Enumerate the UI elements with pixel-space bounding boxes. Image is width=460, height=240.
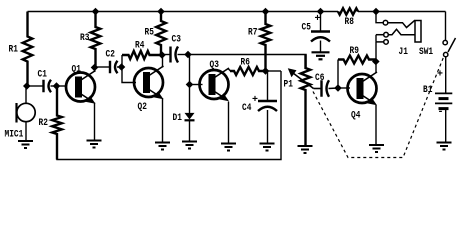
svg-text:Q2: Q2 <box>138 101 147 113</box>
transistor Q3 <box>200 68 230 101</box>
svg-text:-: - <box>438 106 444 118</box>
ground for C5 <box>312 52 330 59</box>
label R8 <box>345 16 354 28</box>
wire Q4 base <box>338 87 350 89</box>
label R9 <box>350 45 359 57</box>
wire Q2 collector <box>162 55 164 68</box>
svg-text:R4: R4 <box>135 40 144 52</box>
resistor R4 <box>122 51 162 67</box>
wire Q3 base drop <box>189 55 191 85</box>
svg-text:R3: R3 <box>80 32 89 44</box>
label R5 <box>145 27 154 39</box>
svg-text:R9: R9 <box>350 45 359 57</box>
node junction dot R4/R5/C3/Q2 <box>158 51 166 59</box>
svg-text:C3: C3 <box>172 34 181 46</box>
wire SW1 to battery <box>445 57 447 93</box>
wire node to feedback drop <box>266 70 282 72</box>
potentiometer P1 body <box>301 55 311 147</box>
node junction dot C2/R4/Q2 base <box>118 63 126 71</box>
resistor R6 <box>230 67 266 75</box>
jack J1 plug body <box>415 21 421 43</box>
ground for Q2 emitter <box>155 143 170 150</box>
node junction dot R9/Q4/J1 <box>372 58 380 66</box>
plus sign B1 <box>437 69 443 81</box>
plus sign C5 <box>315 13 321 25</box>
potentiometer P1 wiper arrow <box>288 68 321 88</box>
label R6 <box>241 57 250 69</box>
wire J1 sleeve to Q4 collector <box>375 35 377 62</box>
svg-text:SW1: SW1 <box>419 46 433 58</box>
svg-text:C5: C5 <box>302 22 311 34</box>
wire Q3 emitter <box>228 102 230 144</box>
wire rail to J1 tip contact <box>376 12 383 23</box>
junction dot rail/R3 <box>92 8 100 16</box>
label R2 <box>39 117 48 129</box>
resistor R5 <box>156 12 166 56</box>
transistor Q1 <box>66 71 96 104</box>
ground for Q3 emitter <box>221 144 236 151</box>
label D1 <box>173 112 182 124</box>
transistor Q4 <box>348 72 378 105</box>
node junction dot R6/R7/C4 <box>262 67 270 75</box>
switch SW1 <box>443 38 456 57</box>
plus sign C4 <box>252 94 258 106</box>
ground for MIC1 <box>18 141 33 148</box>
minus sign B1 <box>438 106 444 118</box>
resistor R3 <box>91 12 101 68</box>
label Q4 <box>351 110 360 122</box>
label C3 <box>172 34 181 46</box>
resistor R2 <box>52 86 62 160</box>
wire Q1 collector <box>94 68 96 73</box>
battery B1 <box>435 93 452 108</box>
dashed mechanical link P1 to SW1 <box>313 56 444 158</box>
ground for B1 <box>437 143 452 150</box>
capacitor C5 electrolytic <box>311 12 330 53</box>
label R3 <box>80 32 89 44</box>
junction dot rail/R5 <box>157 8 165 16</box>
label Q1 <box>72 64 81 76</box>
label P1 <box>284 79 293 91</box>
capacitor C1 <box>28 80 57 93</box>
label Q3 <box>210 59 219 71</box>
label Q2 <box>138 101 147 113</box>
svg-text:R5: R5 <box>145 27 154 39</box>
svg-text:Q3: Q3 <box>210 59 219 71</box>
ground for D1 <box>182 142 197 149</box>
node A junction dot (R1/C1/MIC1) <box>23 82 31 90</box>
junction dot rail/J1 <box>372 8 380 16</box>
wire Q1 base <box>57 85 67 87</box>
node junction dot D1/Q3 base <box>186 81 194 89</box>
svg-text:Q4: Q4 <box>351 110 360 122</box>
wire Q4 collector <box>375 62 377 74</box>
resistor R7 <box>261 12 271 72</box>
svg-text:P1: P1 <box>284 79 293 91</box>
svg-text:R2: R2 <box>39 117 48 129</box>
wire battery to ground <box>445 109 447 143</box>
svg-text:J1: J1 <box>399 46 408 58</box>
label C4 <box>242 102 251 114</box>
ground for P1 <box>298 146 313 153</box>
node B junction dot (C1/R2/Q1 base) <box>53 82 61 90</box>
wire V+ top rail <box>28 11 446 13</box>
wire Q2 base <box>122 67 136 83</box>
wire Q3 collector to R6 <box>228 69 231 72</box>
ground for C4 <box>260 144 275 151</box>
label C6 <box>315 72 324 84</box>
node junction dot C6/R9/Q4 base <box>334 84 342 92</box>
capacitor C3 <box>162 47 188 63</box>
wire Q1 emitter <box>94 103 96 141</box>
ground for Q1 emitter <box>87 141 102 148</box>
label R7 <box>248 27 257 39</box>
resistor R9 <box>338 56 376 89</box>
junction dot rail/R7 <box>262 8 270 16</box>
wire C3 to P1 top (long) <box>188 55 306 69</box>
junction dot rail/C5 <box>317 8 325 16</box>
wire bottom feedback rail <box>57 71 281 160</box>
resistor R1 <box>23 12 33 87</box>
node junction dot C3 out <box>184 51 192 59</box>
transistor Q2 <box>134 66 164 99</box>
label MIC1 <box>5 129 24 141</box>
capacitor C4 electrolytic <box>258 71 277 144</box>
capacitor C6 <box>322 80 339 97</box>
label B1 <box>423 84 432 96</box>
svg-text:B1: B1 <box>423 84 432 96</box>
svg-text:Q1: Q1 <box>72 64 81 76</box>
svg-text:D1: D1 <box>173 112 182 124</box>
label C1 <box>38 69 47 81</box>
jack J1 contacts <box>376 20 415 44</box>
svg-text:C2: C2 <box>106 49 115 61</box>
diode D1 <box>185 85 195 142</box>
label C5 <box>302 22 311 34</box>
capacitor C2 <box>95 61 122 74</box>
label R1 <box>9 44 18 56</box>
wire Q2 emitter <box>162 98 164 143</box>
svg-text:R7: R7 <box>248 27 257 39</box>
svg-text:R8: R8 <box>345 16 354 28</box>
svg-text:R6: R6 <box>241 57 250 69</box>
microphone MIC1 <box>17 86 36 141</box>
label SW1 <box>419 46 433 58</box>
svg-text:+: + <box>315 13 321 25</box>
svg-text:C1: C1 <box>38 69 47 81</box>
wire Q3 base <box>190 84 203 86</box>
resistor R8 <box>338 8 358 14</box>
ground for Q4 emitter <box>369 145 384 152</box>
label J1 <box>399 46 408 58</box>
label C2 <box>106 49 115 61</box>
wire Q4 emitter <box>375 105 377 145</box>
svg-text:MIC1: MIC1 <box>5 129 24 141</box>
node junction dot R3/Q1/C2 <box>91 64 99 72</box>
label R4 <box>135 40 144 52</box>
wire rail right drop to SW1 <box>445 12 447 41</box>
svg-text:R1: R1 <box>9 44 18 56</box>
svg-text:C6: C6 <box>315 72 324 84</box>
svg-text:+: + <box>252 94 258 106</box>
svg-text:C4: C4 <box>242 102 251 114</box>
